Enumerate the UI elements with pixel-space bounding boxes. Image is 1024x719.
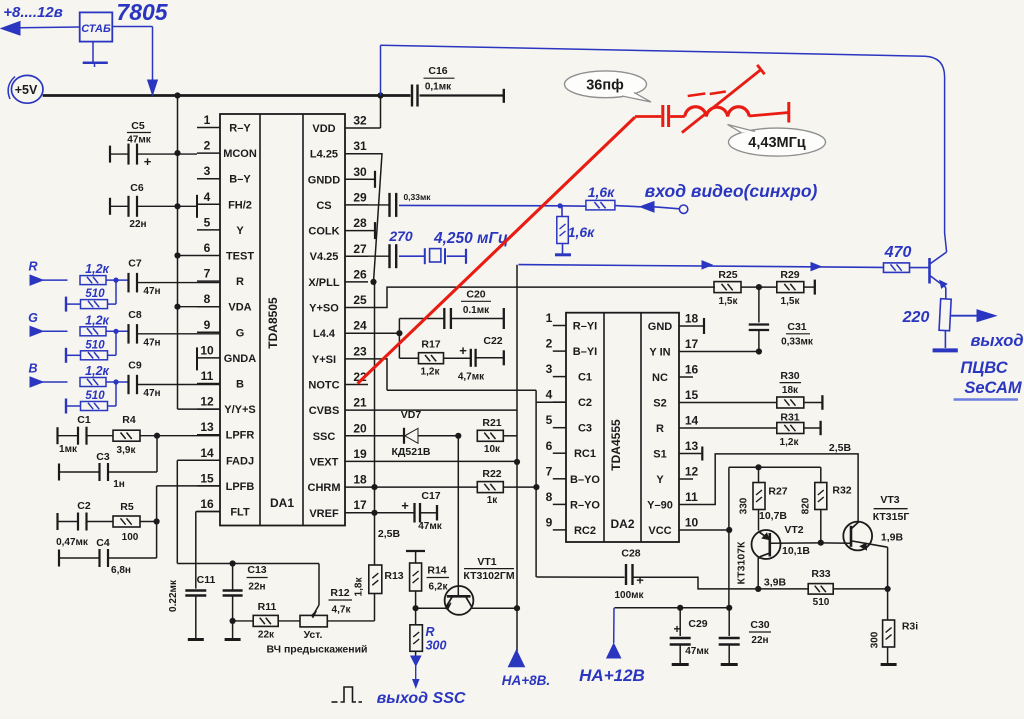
svg-text:1,2к: 1,2к <box>85 262 109 276</box>
svg-text:ПЦВС: ПЦВС <box>960 359 1008 377</box>
svg-text:7: 7 <box>204 267 211 281</box>
svg-text:B: B <box>236 379 244 391</box>
svg-text:16: 16 <box>685 363 699 377</box>
svg-text:SеСАМ: SеСАМ <box>964 379 1023 397</box>
svg-text:330: 330 <box>739 497 750 514</box>
svg-text:C5: C5 <box>131 120 145 132</box>
svg-text:НА+12В: НА+12В <box>579 666 645 685</box>
svg-text:Y–90: Y–90 <box>647 500 673 512</box>
svg-text:LPFR: LPFR <box>226 430 255 442</box>
svg-text:22н: 22н <box>248 582 265 593</box>
svg-text:47н: 47н <box>143 337 160 348</box>
svg-text:R22: R22 <box>482 468 501 480</box>
svg-text:510: 510 <box>85 339 105 351</box>
svg-text:C7: C7 <box>128 258 142 270</box>
svg-text:C1: C1 <box>77 414 91 426</box>
svg-text:LPFB: LPFB <box>226 481 255 493</box>
svg-text:0,47мк: 0,47мк <box>56 537 89 548</box>
svg-text:510: 510 <box>813 597 830 608</box>
svg-text:вход видео(синхро): вход видео(синхро) <box>645 181 818 201</box>
svg-text:C2: C2 <box>578 397 592 409</box>
svg-text:R27: R27 <box>768 486 787 498</box>
svg-text:R: R <box>28 260 37 274</box>
svg-text:TEST: TEST <box>226 251 254 263</box>
svg-text:СТАБ: СТАБ <box>81 23 111 35</box>
svg-text:4,250 мГц: 4,250 мГц <box>433 230 508 247</box>
svg-text:выход SSC: выход SSC <box>377 690 466 707</box>
svg-text:6,2к: 6,2к <box>429 582 449 593</box>
svg-text:NOTC: NOTC <box>308 380 339 392</box>
svg-text:R32: R32 <box>832 485 851 497</box>
svg-text:Y/Y+S: Y/Y+S <box>224 404 256 416</box>
svg-text:C13: C13 <box>247 564 266 576</box>
svg-text:22н: 22н <box>129 219 146 230</box>
svg-text:COLK: COLK <box>308 226 339 238</box>
svg-text:32: 32 <box>353 114 367 128</box>
svg-text:КД521В: КД521В <box>392 446 431 458</box>
svg-text:8: 8 <box>546 490 553 504</box>
svg-text:47н: 47н <box>143 286 160 297</box>
svg-text:C9: C9 <box>128 360 142 372</box>
svg-text:+: + <box>401 498 409 513</box>
svg-text:R3і: R3і <box>902 621 918 633</box>
svg-text:27: 27 <box>353 242 367 256</box>
svg-text:23: 23 <box>353 344 367 358</box>
svg-text:470: 470 <box>884 244 912 261</box>
svg-text:Y: Y <box>656 474 664 486</box>
svg-text:DA1: DA1 <box>270 496 294 510</box>
svg-text:0.22мк: 0.22мк <box>168 579 179 612</box>
svg-text:S2: S2 <box>653 398 666 410</box>
svg-text:G: G <box>236 327 245 339</box>
svg-text:R25: R25 <box>718 269 737 281</box>
svg-text:R33: R33 <box>811 568 830 580</box>
svg-text:R: R <box>656 423 664 435</box>
svg-text:12: 12 <box>200 395 214 409</box>
svg-text:RC1: RC1 <box>574 448 596 460</box>
svg-text:FH/2: FH/2 <box>228 199 252 211</box>
svg-text:НА+8В.: НА+8В. <box>502 673 550 688</box>
svg-text:15: 15 <box>200 471 214 485</box>
svg-text:7805: 7805 <box>116 0 168 25</box>
svg-text:1,6к: 1,6к <box>588 184 615 200</box>
svg-text:0,1мк: 0,1мк <box>425 82 452 93</box>
svg-text:1,9В: 1,9В <box>881 532 904 544</box>
svg-text:11: 11 <box>201 369 214 383</box>
svg-text:29: 29 <box>353 190 367 204</box>
svg-text:R–Y: R–Y <box>229 123 251 135</box>
svg-text:+: + <box>673 622 680 636</box>
svg-text:1мк: 1мк <box>59 444 78 455</box>
svg-text:C4: C4 <box>96 537 110 549</box>
svg-text:21: 21 <box>353 396 367 410</box>
svg-text:VREF: VREF <box>309 508 339 520</box>
svg-text:КТ315Г: КТ315Г <box>873 511 910 523</box>
svg-text:CVBS: CVBS <box>309 405 340 417</box>
svg-text:DA2: DA2 <box>610 517 634 531</box>
svg-text:10: 10 <box>200 343 214 357</box>
svg-text:5: 5 <box>204 215 211 229</box>
svg-text:300: 300 <box>426 639 447 653</box>
svg-text:20: 20 <box>353 421 367 435</box>
svg-text:X/PLL: X/PLL <box>308 277 339 289</box>
svg-text:C17: C17 <box>421 490 440 502</box>
svg-text:3,9В: 3,9В <box>764 577 787 589</box>
svg-text:24: 24 <box>353 319 367 333</box>
svg-text:R31: R31 <box>780 412 799 424</box>
svg-text:VDD: VDD <box>312 123 335 135</box>
svg-text:47мк: 47мк <box>685 646 710 657</box>
svg-text:15: 15 <box>685 388 699 402</box>
svg-text:4: 4 <box>204 190 211 204</box>
svg-text:C11: C11 <box>197 574 216 586</box>
svg-text:L4.4: L4.4 <box>313 328 336 340</box>
svg-text:C16: C16 <box>428 65 447 77</box>
svg-text:14: 14 <box>200 446 214 460</box>
svg-text:13: 13 <box>200 420 214 434</box>
svg-text:5: 5 <box>546 413 553 427</box>
svg-text:C3: C3 <box>578 423 592 435</box>
svg-text:1,5к: 1,5к <box>719 296 739 307</box>
svg-text:4,43МГц: 4,43МГц <box>748 135 806 151</box>
svg-text:4,7мк: 4,7мк <box>458 372 485 383</box>
svg-text:1,6к: 1,6к <box>568 224 595 240</box>
svg-text:SSC: SSC <box>313 431 336 443</box>
svg-text:B–YO: B–YO <box>570 474 600 486</box>
svg-text:C8: C8 <box>128 309 142 321</box>
svg-text:22н: 22н <box>751 635 768 646</box>
svg-text:+: + <box>459 343 467 358</box>
svg-text:1,2к: 1,2к <box>421 367 441 378</box>
svg-text:VT1: VT1 <box>477 556 496 568</box>
svg-text:7: 7 <box>546 464 553 478</box>
svg-text:100: 100 <box>122 532 139 543</box>
svg-text:GNDD: GNDD <box>308 174 340 186</box>
svg-text:RC2: RC2 <box>574 525 596 537</box>
svg-text:6,8н: 6,8н <box>111 565 131 576</box>
svg-text:2: 2 <box>546 337 553 351</box>
svg-text:0,33мк: 0,33мк <box>781 337 814 348</box>
svg-text:36пф: 36пф <box>586 77 624 93</box>
svg-text:3: 3 <box>546 362 553 376</box>
svg-text:19: 19 <box>353 447 367 461</box>
svg-text:47мк: 47мк <box>127 135 152 146</box>
svg-text:11: 11 <box>685 490 698 504</box>
svg-text:1,2к: 1,2к <box>780 437 800 448</box>
svg-text:NC: NC <box>652 372 668 384</box>
svg-text:1: 1 <box>546 311 553 325</box>
svg-text:47н: 47н <box>143 388 160 399</box>
svg-text:2,5В: 2,5В <box>378 528 401 540</box>
svg-text:TDA8505: TDA8505 <box>266 297 280 349</box>
svg-text:GND: GND <box>648 321 673 333</box>
svg-text:R4: R4 <box>122 414 136 426</box>
svg-text:G: G <box>28 311 38 325</box>
svg-text:КТ3107К: КТ3107К <box>736 541 748 584</box>
svg-text:18: 18 <box>685 312 699 326</box>
svg-text:4: 4 <box>546 388 553 402</box>
svg-text:300: 300 <box>870 631 881 648</box>
svg-text:C1: C1 <box>578 372 592 384</box>
svg-text:4,7к: 4,7к <box>332 605 352 616</box>
svg-text:B–Y: B–Y <box>229 174 251 186</box>
svg-text:C29: C29 <box>688 618 707 630</box>
svg-text:MCON: MCON <box>223 148 257 160</box>
svg-text:R11: R11 <box>258 601 277 613</box>
svg-text:Y+SO: Y+SO <box>309 303 339 315</box>
svg-text:TDA4555: TDA4555 <box>609 419 623 471</box>
svg-text:C2: C2 <box>77 500 91 512</box>
svg-text:510: 510 <box>85 288 105 300</box>
svg-text:9: 9 <box>204 318 211 332</box>
svg-text:100мк: 100мк <box>614 590 644 601</box>
svg-text:+: + <box>144 154 152 169</box>
svg-text:1,8к: 1,8к <box>354 577 365 597</box>
svg-text:26: 26 <box>353 267 367 281</box>
svg-text:Y IN: Y IN <box>649 347 670 359</box>
svg-text:10,1В: 10,1В <box>782 545 810 557</box>
svg-text:L4.25: L4.25 <box>310 149 338 161</box>
svg-text:R13: R13 <box>384 570 403 582</box>
svg-text:1: 1 <box>204 113 211 127</box>
svg-text:VEXT: VEXT <box>310 456 339 468</box>
svg-text:FLT: FLT <box>230 507 250 519</box>
svg-text:R21: R21 <box>482 417 501 429</box>
svg-text:25: 25 <box>353 293 367 307</box>
svg-text:B: B <box>28 362 37 376</box>
svg-text:C3: C3 <box>96 451 110 463</box>
svg-text:6: 6 <box>546 439 553 453</box>
svg-text:+: + <box>636 573 644 588</box>
svg-text:28: 28 <box>353 216 367 230</box>
svg-text:1,5к: 1,5к <box>781 296 801 307</box>
svg-text:16: 16 <box>200 497 214 511</box>
svg-text:1,2к: 1,2к <box>85 313 109 327</box>
svg-text:VT2: VT2 <box>784 524 803 536</box>
svg-text:31: 31 <box>353 139 367 153</box>
svg-text:КТ3102ГМ: КТ3102ГМ <box>463 570 514 582</box>
svg-text:6: 6 <box>204 241 211 255</box>
svg-text:Y+SI: Y+SI <box>312 354 336 366</box>
svg-text:1,2к: 1,2к <box>85 364 109 378</box>
svg-text:8: 8 <box>204 292 211 306</box>
svg-text:10к: 10к <box>484 444 501 455</box>
svg-text:1н: 1н <box>113 479 125 490</box>
svg-text:12: 12 <box>685 465 699 479</box>
svg-text:GNDA: GNDA <box>224 353 256 365</box>
svg-text:3,9к: 3,9к <box>117 445 137 456</box>
svg-text:CHRM: CHRM <box>308 482 341 494</box>
svg-text:C30: C30 <box>750 619 769 631</box>
svg-text:R30: R30 <box>780 370 799 382</box>
svg-text:выход: выход <box>970 332 1023 350</box>
svg-text:R: R <box>425 625 434 639</box>
svg-text:ВЧ предыскажений: ВЧ предыскажений <box>266 644 367 656</box>
svg-text:Уст.: Уст. <box>304 629 323 641</box>
svg-text:13: 13 <box>685 439 699 453</box>
svg-text:17: 17 <box>353 498 367 512</box>
svg-text:Y: Y <box>236 225 244 237</box>
svg-text:820: 820 <box>801 497 812 514</box>
svg-text:B–YI: B–YI <box>573 346 597 358</box>
svg-text:47мк: 47мк <box>418 521 443 532</box>
svg-text:220: 220 <box>902 309 930 326</box>
svg-text:S1: S1 <box>653 449 666 461</box>
svg-text:VD7: VD7 <box>401 409 422 421</box>
svg-text:VDA: VDA <box>228 302 251 314</box>
svg-text:510: 510 <box>85 390 105 402</box>
svg-text:R–YO: R–YO <box>570 499 600 511</box>
svg-text:R: R <box>236 276 244 288</box>
svg-text:C20: C20 <box>466 289 485 301</box>
svg-text:17: 17 <box>685 337 699 351</box>
svg-text:C28: C28 <box>621 548 640 560</box>
svg-text:CS: CS <box>316 200 331 212</box>
svg-text:1к: 1к <box>487 495 499 506</box>
svg-text:10: 10 <box>685 516 699 530</box>
svg-text:+8....12в: +8....12в <box>3 4 63 21</box>
svg-text:0.1мк: 0.1мк <box>463 305 490 316</box>
svg-text:R12: R12 <box>330 587 349 599</box>
svg-text:R5: R5 <box>120 501 134 513</box>
svg-text:VT3: VT3 <box>880 494 899 506</box>
svg-text:V4.25: V4.25 <box>310 251 339 263</box>
svg-text:R14: R14 <box>427 565 446 577</box>
svg-text:22к: 22к <box>258 630 275 641</box>
svg-text:18: 18 <box>353 473 367 487</box>
svg-text:14: 14 <box>685 414 699 428</box>
svg-text:18к: 18к <box>782 385 799 396</box>
svg-text:C6: C6 <box>130 182 144 194</box>
svg-text:270: 270 <box>388 228 413 244</box>
svg-text:FADJ: FADJ <box>226 455 254 467</box>
svg-text:9: 9 <box>546 515 553 529</box>
svg-text:2,5В: 2,5В <box>829 442 852 454</box>
svg-text:+5V: +5V <box>15 83 38 97</box>
svg-text:10,7В: 10,7В <box>759 510 787 522</box>
svg-text:C22: C22 <box>483 335 502 347</box>
svg-text:0,33мк: 0,33мк <box>403 192 431 202</box>
svg-text:R–YI: R–YI <box>573 321 597 333</box>
svg-text:30: 30 <box>353 165 367 179</box>
svg-text:VCC: VCC <box>648 525 671 537</box>
svg-text:C31: C31 <box>787 321 806 333</box>
svg-text:R17: R17 <box>421 339 440 351</box>
svg-text:R29: R29 <box>780 269 799 281</box>
svg-text:3: 3 <box>204 164 211 178</box>
svg-text:2: 2 <box>204 139 211 153</box>
